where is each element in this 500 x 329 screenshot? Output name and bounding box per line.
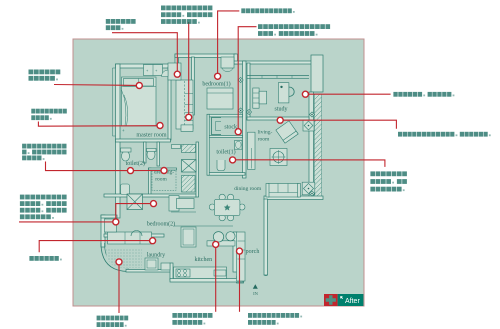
svg-text:After: After <box>345 298 360 305</box>
svg-text:+: + <box>122 128 125 133</box>
svg-text:master room: master room <box>136 132 166 138</box>
svg-text:laundry: laundry <box>147 253 165 259</box>
svg-text:toilet(1): toilet(1) <box>216 149 235 156</box>
svg-text:toilet(2): toilet(2) <box>126 160 145 167</box>
svg-text:stock: stock <box>224 125 237 131</box>
svg-text:bedroom(2): bedroom(2) <box>147 221 175 228</box>
svg-text:IN: IN <box>253 291 259 296</box>
svg-text:bedroom(1): bedroom(1) <box>202 81 230 88</box>
svg-text:living-: living- <box>258 129 273 135</box>
svg-text:room: room <box>258 136 270 142</box>
svg-text:kitchen: kitchen <box>194 257 212 263</box>
svg-text:dining room: dining room <box>234 186 262 192</box>
svg-text:room: room <box>155 177 167 183</box>
svg-text:porch: porch <box>246 249 260 255</box>
svg-text:study: study <box>274 107 287 113</box>
